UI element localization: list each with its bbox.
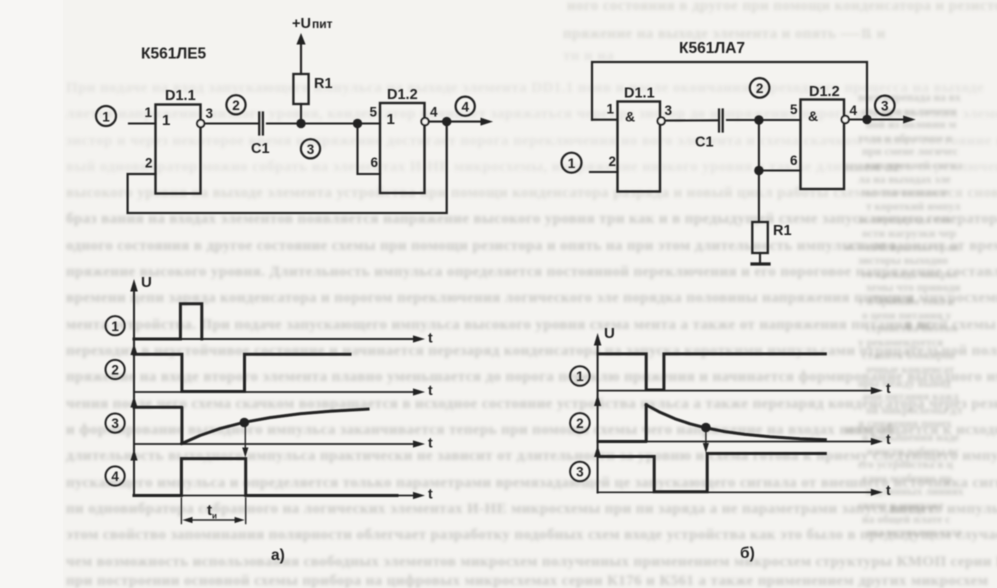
svg-text:ментов возникае: ментов возникае [862,187,949,199]
svg-text:жности работы вс: жности работы вс [866,446,959,458]
NOR gate D1.2 body [380,103,425,193]
ground symbol [752,262,769,265]
svg-text:3: 3 [206,106,214,121]
diagram a: trace2 waveform [134,354,350,391]
svg-text:2: 2 [232,98,240,113]
wire D1.1 output to C1 [665,119,718,121]
output junction dot [442,117,451,126]
diagram b: trace2 label circle 2 [570,413,590,433]
svg-text:его устройства в ц: его устройства в ц [858,459,953,471]
svg-text:1: 1 [162,112,170,129]
node 2 label circle [226,95,245,114]
svg-text:5: 5 [790,102,798,117]
svg-text:т короткий импул: т короткий импул [866,201,961,213]
node 3 label circle [875,96,895,116]
diagram a: pulse width dimension lines and arrows [181,498,245,524]
svg-text:пит: пит [312,17,333,31]
diagram a: t axis trace3 [134,435,433,451]
svg-text:1: 1 [606,102,614,117]
svg-text:&: & [808,108,818,124]
svg-text:5: 5 [369,105,377,120]
svg-text:3: 3 [881,99,889,114]
svg-text:ется и: ется и [870,291,914,307]
feedback wire from output to D1.1 pin2 [128,122,447,213]
svg-text:1: 1 [111,319,119,334]
svg-text:пускающего импульса и определя: пускающего импульса и определяется тольк… [66,475,997,491]
NAND gate D1.2 body [801,100,845,190]
svg-text:2: 2 [111,363,119,378]
diagram a: threshold dot on trace3 [240,418,250,428]
resistor R1 [752,222,768,263]
svg-text:при построении основной схемы: при построении основной схемы прибора на… [66,573,988,588]
resistor R1 [293,43,308,124]
svg-text:4: 4 [461,99,469,114]
svg-text:t: t [886,431,891,447]
svg-text:высокого уровня на выходе элем: высокого уровня на выходе элемента устро… [66,185,997,201]
svg-text:елом особенно пр: елом особенно пр [862,473,952,485]
svg-text:в ис: в ис [905,317,934,333]
diagram b: trace3 label circle 3 [570,462,590,482]
wire C1 to node2 junction [727,119,801,121]
svg-text:ой микросхемы дл: ой микросхемы дл [866,405,963,417]
svg-text:t: t [428,382,433,398]
svg-text:D1.1: D1.1 [165,88,196,104]
diagram b: trace2 waveform with exponential discharge curve [598,405,825,442]
diagram a: axis origin arrow trace2 [130,344,137,356]
wire node1 to D1.1 pin2 [590,171,618,173]
svg-text:этом свойство запоминания поля: этом свойство запоминания полярности обл… [66,527,997,543]
D1.1 output inversion bubble [197,120,204,127]
diagram b: trace1 label circle 1 [570,366,590,386]
diagram a: U axis [130,279,138,496]
capacitor C1 [719,110,723,132]
node 3 label circle [301,139,320,158]
diagram b: axis origin arrow trace3 [594,446,601,458]
svg-text:К561ЛЕ5: К561ЛЕ5 [141,46,207,63]
svg-text:4: 4 [430,105,438,120]
diagram a: trace2 label circle 2 [106,360,125,379]
diagram b: threshold arrow down to trace3 edge [703,432,709,453]
diagram a: axis origin arrow trace4 [130,449,137,461]
svg-text:ного состояния в другое при по: ного состояния в другое при помощи конде… [567,0,997,14]
svg-text:— 1 и: — 1 и [844,26,886,42]
diagram a: trace1 label circle 1 [106,316,125,335]
node 2 junction dot [754,115,763,124]
wire node2 down to lower junction [758,120,760,171]
diagram b: trace1 input waveform with trigger notch [598,354,825,390]
D1.1 output inversion bubble [658,117,665,124]
diagram b: t axis trace2 [598,431,891,447]
svg-text:U: U [141,274,152,291]
D1.2 output inversion bubble [842,116,849,123]
wire D1.2 output to output node [429,121,447,123]
svg-text:D1.2: D1.2 [387,87,418,103]
diagram a: axis origin arrow trace3 [130,396,137,408]
diagram a: trace3 waveform with exponential charge curve [134,407,368,443]
svg-text:t: t [428,486,433,502]
NAND gate D1.1 body [618,102,661,192]
NOR gate D1.1 body [156,105,201,194]
diagram b: t axis trace3 [598,482,891,498]
svg-text:C1: C1 [251,141,270,157]
wire node1 to D1.1 pin1 [129,122,156,124]
svg-text:3: 3 [665,103,673,118]
svg-text:ставить блокиров: ставить блокиров [862,350,955,362]
svg-text:4: 4 [850,103,858,118]
diagram a: trace4 output pulse waveform [134,459,397,496]
svg-text:вого перепада на вх: вого перепада на вх [858,92,961,104]
svg-text:R1: R1 [314,76,333,92]
svg-text:+U: +U [292,16,311,32]
svg-text:1: 1 [568,156,576,171]
node 4 label circle [456,97,475,116]
diagram b: axis origin arrow trace2 [594,395,601,407]
diagram b: trace3 output waveform [598,454,825,492]
svg-text:ала это: ала это [845,238,896,254]
svg-text:зисторы выходно: зисторы выходно [858,255,948,267]
svg-text:t: t [886,482,891,498]
svg-text:у рекомендуется: у рекомендуется [858,337,943,349]
svg-text:4: 4 [111,469,119,484]
svg-text:U: U [604,325,615,342]
svg-text:нием пе: нием пе [845,159,901,175]
svg-text:2: 2 [756,81,764,96]
svg-text:6: 6 [790,153,798,168]
svg-text:теля и обратном н: теля и обратном н [858,133,953,145]
capacitor C1 [259,113,263,135]
diagram a: t axis trace4 [134,486,433,502]
svg-text:при смене логичес: при смене логичес [862,146,958,158]
wire junction to D1.2 pin6 [358,124,381,175]
diagram b: threshold dot on trace2 [701,423,711,433]
diagram b: t axis trace1 [598,380,891,396]
svg-text:&: & [625,109,635,125]
svg-text:чем возможность использования: чем возможность использования свободных … [66,554,997,570]
svg-text:а): а) [271,547,285,564]
diagram a: threshold arrow down to trace4 edge [242,427,248,458]
diagram a: trace3 label circle 3 [106,414,125,433]
svg-text:3: 3 [576,465,584,480]
wire top rail to D1.1 pin1 [592,119,618,121]
svg-text:К561ЛА7: К561ЛА7 [679,40,745,57]
wire junction to D1.2 pin5 [358,122,381,124]
node 3 junction dot [296,119,305,128]
wire C1 to node3 junction [267,122,358,124]
node 1 input terminal circle [562,153,582,173]
diagram b: U axis [594,333,602,493]
svg-text:R1: R1 [773,223,792,239]
svg-text:очные конденсат: очные конденсат [866,364,955,376]
svg-text:t: t [428,435,433,451]
svg-text:мента устройства. При подаче з: мента устройства. При подаче запускающег… [66,317,997,333]
svg-text:C1: C1 [695,135,714,151]
svg-text:1: 1 [144,105,152,120]
lower junction dot [754,166,763,175]
svg-text:D1.1: D1.1 [624,86,655,102]
node 2 label circle [750,78,770,98]
svg-text:2: 2 [608,154,616,169]
svg-text:D1.2: D1.2 [809,84,840,100]
svg-text:При подаче на вход запускающег: При подаче на вход запускающего импульса… [66,80,984,96]
wire junction to D1.2 pin6 [759,169,801,171]
diagram a: trace4 label circle 4 [106,466,125,485]
diagram a: trace1 input pulse waveform [134,304,202,339]
wire D1.2 output to output node [849,118,867,120]
svg-text:чения после чего схема скачком: чения после чего схема скачком возвращае… [66,396,997,412]
diagram a: t axis trace1 [134,330,433,346]
diagram a: t axis trace2 [134,382,433,398]
junction dot tie of pins 5 and 6 [353,119,362,128]
svg-text:1: 1 [102,109,110,124]
svg-text:1: 1 [387,111,395,128]
svg-text:3: 3 [307,142,315,157]
svg-text:ьс перезаряда емк: ьс перезаряда емк [858,214,953,226]
node 1 input terminal circle [96,106,116,126]
svg-text:ами питания кажд: ами питания кажд [862,391,959,403]
feedback wire from output node to D1.1 pin1 (top rail) [592,62,867,120]
svg-text:3: 3 [111,416,119,431]
svg-text:t: t [428,330,433,346]
svg-text:t: t [886,380,891,396]
svg-text:2: 2 [576,416,584,431]
svg-text:нием с: нием с [890,501,937,517]
wire D1.1 output to C1 [205,122,258,124]
output junction dot [862,115,871,124]
D1.2 output inversion bubble [421,118,428,125]
svg-text:аналоговыми узла: аналоговыми узла [866,527,962,539]
output arrow [867,116,916,124]
svg-text:6: 6 [370,155,378,170]
output arrow [447,118,493,126]
svg-text:го каскада микрос: го каскада микрос [862,269,958,281]
svg-text:б): б) [740,545,755,562]
wire junction down to R1 [758,171,760,223]
+Uпит power terminal [292,16,333,45]
svg-text:2: 2 [145,156,153,171]
svg-text:ла на выходах эле: ла на выходах эле [858,174,951,186]
svg-text:1: 1 [576,369,584,384]
